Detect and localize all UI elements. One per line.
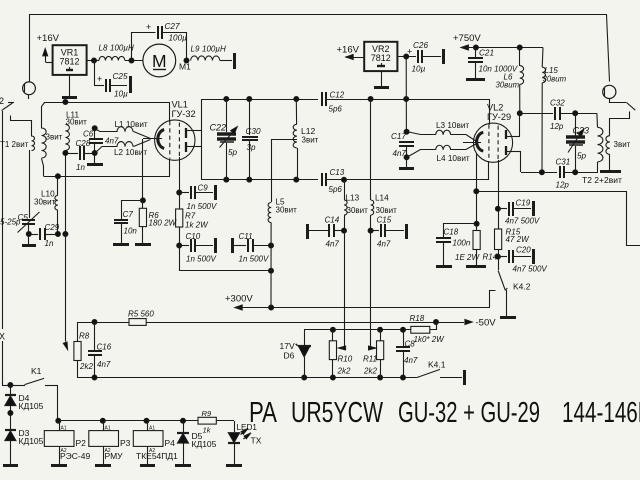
svg-text:12p: 12p (556, 181, 570, 190)
wire grid feed top y102 (44, 100, 170, 105)
svg-text:ТКЕ54ПД1: ТКЕ54ПД1 (136, 451, 178, 461)
svg-text:C9: C9 (198, 183, 209, 192)
svg-text:C21: C21 (479, 48, 494, 57)
svg-text:5-25p: 5-25p (0, 218, 21, 227)
svg-text:30вит: 30вит (376, 206, 398, 215)
svg-text:C29: C29 (45, 223, 60, 232)
svg-text:30вит: 30вит (347, 206, 369, 215)
svg-text:5p: 5p (228, 148, 238, 157)
svg-text:C27: C27 (165, 22, 180, 31)
svg-text:4n7: 4n7 (377, 240, 391, 249)
resistor R18 1k0 2W (410, 314, 446, 344)
svg-text:-50V: -50V (476, 318, 497, 329)
svg-text:КД105: КД105 (192, 439, 217, 449)
label +16V right (337, 45, 360, 56)
svg-text:12p: 12p (550, 122, 564, 131)
transformer T2 secondary 3vit (600, 112, 631, 172)
svg-text:1n 500V: 1n 500V (186, 255, 216, 264)
svg-text:R8: R8 (79, 332, 90, 341)
potentiometer R11 2k2 (363, 330, 384, 378)
svg-text:C28: C28 (76, 139, 91, 148)
inductor L6 30vit (496, 48, 524, 113)
inductor L1 10vit (95, 120, 151, 139)
svg-text:7812: 7812 (371, 53, 391, 63)
svg-text:L4 10вит: L4 10вит (437, 154, 470, 163)
svg-text:C17: C17 (391, 132, 406, 141)
svg-text:M: M (152, 51, 167, 71)
capacitor C26 10u (397, 41, 444, 74)
capacitor C28 1n (63, 139, 95, 172)
svg-text:+: + (146, 22, 151, 32)
svg-text:C25: C25 (113, 72, 128, 81)
arrow +16V up (43, 49, 53, 63)
wire cathode line to right edge (477, 192, 640, 246)
anode top rail to C32 (520, 113, 553, 115)
svg-text:100µ: 100µ (169, 34, 188, 43)
svg-text:ГУ-29: ГУ-29 (487, 112, 511, 122)
svg-text:+16V: +16V (337, 45, 360, 56)
capacitor C21 10n 1000V (466, 48, 518, 80)
transformer T1 winding 2vit (0, 116, 35, 219)
svg-text:T1 2вит: T1 2вит (0, 140, 29, 149)
svg-text:C14: C14 (325, 216, 340, 225)
svg-text:100n: 100n (453, 239, 471, 248)
svg-text:РМУ: РМУ (105, 451, 124, 461)
svg-text:C26: C26 (413, 41, 428, 50)
wire L11 node down to R8 wiper (63, 153, 67, 350)
coax connector output with switch (603, 85, 636, 110)
resistor R12 1E 2W (455, 221, 486, 266)
svg-text:4n7: 4n7 (404, 356, 418, 365)
capacitor C16 4n7 (88, 322, 112, 378)
svg-text:C18: C18 (444, 228, 459, 237)
switch K4.1 (417, 360, 465, 386)
resistor R7 1k 2W (176, 209, 210, 246)
capacitor C30 3p (242, 99, 261, 180)
svg-text:P2: P2 (76, 438, 87, 448)
diode D5 KD105 (175, 421, 217, 466)
node R7 bottom (177, 243, 182, 248)
switch K4.2 (490, 271, 531, 318)
inductor L12 3vit (293, 99, 318, 180)
svg-text:5p6: 5p6 (329, 105, 343, 114)
svg-text:30вит: 30вит (276, 206, 298, 215)
svg-text:C30: C30 (246, 127, 261, 136)
capacitor C11 1n 500V (233, 232, 272, 264)
capacitor C31 12p (556, 158, 599, 190)
svg-text:3вит: 3вит (302, 135, 319, 144)
wire VL2 cathode down (474, 154, 479, 224)
enclosure frame top (30, 15, 610, 82)
capacitor C7 10n (113, 201, 143, 245)
svg-text:C16: C16 (97, 343, 112, 352)
capacitor C6 4n7 (83, 126, 119, 156)
label +16V (37, 33, 60, 44)
svg-text:C7: C7 (123, 210, 134, 219)
coax connector Gn2 (RF input) (23, 82, 36, 99)
cathode stub VL2 (463, 142, 481, 144)
arrow +750V left (461, 45, 543, 50)
svg-text:P4: P4 (165, 438, 176, 448)
terminal after L9 (220, 53, 235, 69)
inductor L3 10vit (407, 121, 477, 142)
svg-text:L13: L13 (346, 194, 360, 203)
resistor R8 2k2 (74, 322, 94, 378)
transformer T2 primary 2+2vit (597, 113, 603, 172)
cathode stub VL1 (143, 138, 162, 140)
node R15 bottom (495, 250, 500, 270)
label T2 2+2vit (582, 175, 622, 185)
svg-text:1k 2W: 1k 2W (185, 221, 209, 230)
svg-text:K4.1: K4.1 (428, 360, 446, 370)
wire RX line left edge (2, 111, 4, 385)
svg-text:+: + (97, 74, 102, 84)
svg-text:2k2: 2k2 (363, 367, 377, 376)
bias rail y330 (304, 327, 411, 332)
variable capacitor C22 5p (210, 99, 238, 180)
capacitor C15 4n7 (368, 216, 406, 249)
capacitor C27 100u (132, 22, 188, 61)
svg-text:PA: PA (249, 397, 277, 429)
node VL2 anode top (506, 111, 522, 137)
capacitor C10 1n 500V (179, 232, 216, 264)
svg-text:2: 2 (0, 96, 4, 106)
inductor L9 100uH (191, 45, 226, 61)
svg-text:3вит: 3вит (46, 133, 63, 142)
svg-text:P3: P3 (120, 438, 131, 448)
svg-text:4n7: 4n7 (97, 360, 111, 369)
relay P2 RES-49 (44, 421, 90, 466)
variable capacitor C23 5p (566, 113, 589, 172)
capacitor C25 10u (94, 60, 131, 99)
resistor R15 47 2W (495, 228, 531, 250)
svg-text:1k: 1k (203, 426, 212, 435)
switch K1 (2, 366, 58, 388)
svg-text:КД105: КД105 (19, 401, 44, 411)
svg-text:3вит: 3вит (614, 140, 631, 149)
svg-text:A1: A1 (149, 425, 155, 431)
svg-text:4n7: 4n7 (326, 240, 340, 249)
svg-text:1n: 1n (45, 239, 54, 248)
label 2 (0, 96, 4, 106)
relay coil bus (56, 385, 198, 423)
svg-text:C23: C23 (573, 126, 590, 136)
diode D3 KD105 (3, 411, 44, 466)
svg-text:+750V: +750V (453, 33, 481, 44)
inductor L5 30vit (268, 198, 297, 308)
svg-text:C19: C19 (516, 199, 531, 208)
svg-text:30вит: 30вит (543, 75, 567, 84)
svg-text:4n7 500V: 4n7 500V (505, 217, 540, 226)
node VL2 anode bottom (506, 151, 557, 175)
svg-text:10µ: 10µ (412, 65, 426, 74)
svg-text:5p6: 5p6 (329, 185, 343, 194)
inductor L13 30vit (344, 180, 368, 231)
node VR2 out (404, 54, 409, 132)
zener diode D6 17V (280, 330, 312, 378)
inductor L14 30vit (371, 99, 398, 231)
svg-text:C32: C32 (550, 99, 565, 108)
svg-text:1E 2W: 1E 2W (455, 253, 480, 262)
svg-text:17V: 17V (280, 341, 295, 351)
svg-text:C13: C13 (330, 168, 345, 177)
resistor R5 560 (78, 310, 436, 326)
capacitor C12 5p6 (322, 91, 490, 114)
capacitor C13 5p6 (322, 168, 489, 194)
capacitor C9 1n 500V (179, 183, 217, 211)
svg-text:30вит: 30вит (496, 81, 520, 90)
arrow +16V left (346, 55, 364, 60)
svg-text:L14: L14 (375, 194, 389, 203)
anode bottom bus y179.6 (202, 177, 318, 182)
wire VL2 grid1 top (489, 100, 491, 125)
svg-text:L3 10вит: L3 10вит (436, 121, 469, 130)
capacitor C19 4n7 500V (498, 199, 540, 226)
svg-text:R10: R10 (338, 355, 353, 364)
svg-text:4n7 500V: 4n7 500V (513, 265, 548, 274)
svg-text:L9: L9 (191, 45, 200, 54)
inductor L11 30vit (65, 111, 87, 154)
label +750V (453, 33, 481, 44)
svg-text:R11: R11 (363, 355, 377, 364)
variable capacitor C5 5-25p (0, 212, 40, 234)
svg-text:30вит: 30вит (34, 198, 56, 207)
svg-text:C10: C10 (186, 232, 201, 241)
wire VL2 screen down (495, 160, 500, 229)
svg-text:C15: C15 (377, 216, 392, 225)
svg-text:3p: 3p (247, 143, 257, 152)
svg-text:100µH: 100µH (110, 44, 134, 53)
svg-text:100µH: 100µH (202, 45, 226, 54)
svg-text:X: X (0, 332, 5, 342)
ground C5 node (22, 232, 36, 246)
arrow -50V (434, 318, 497, 329)
svg-text:+16V: +16V (37, 33, 60, 44)
LED1 TX (226, 421, 262, 466)
svg-text:R14: R14 (483, 253, 498, 262)
svg-text:D6: D6 (284, 351, 295, 361)
svg-text:4n7: 4n7 (393, 149, 407, 158)
svg-text:180 2W: 180 2W (149, 219, 178, 228)
capacitor C32 12p (550, 99, 597, 132)
svg-text:1n 500V: 1n 500V (187, 202, 217, 211)
transformer T1 winding 3vit (42, 103, 63, 177)
svg-text:A1: A1 (61, 425, 67, 431)
ground VR1 (62, 75, 77, 98)
svg-text:C22: C22 (210, 123, 227, 133)
ground C6 node (87, 153, 103, 165)
wire L12 tap to +300V riser (271, 139, 297, 202)
wire VL1 screen down (177, 157, 182, 209)
wire L13 to R10 wiper (338, 231, 345, 351)
svg-text:GU-32 + GU-29: GU-32 + GU-29 (398, 397, 540, 429)
svg-text:КД105: КД105 (19, 436, 44, 446)
inductor L15 30vit (542, 48, 567, 173)
motor M1 (143, 44, 191, 77)
diode D4 KD105 (5, 385, 44, 413)
svg-text:T2 2+2вит: T2 2+2вит (582, 175, 622, 185)
svg-text:4n7: 4n7 (105, 137, 119, 146)
inductor L8 100uH (99, 44, 134, 61)
svg-text:C31: C31 (556, 158, 571, 167)
svg-text:1n 500V: 1n 500V (239, 255, 269, 264)
capacitor C18 100n (436, 224, 477, 267)
svg-text:UR5YCW: UR5YCW (291, 397, 383, 429)
resistor R6 180 2W (135, 200, 178, 245)
svg-text:L1 10вит: L1 10вит (115, 120, 148, 129)
svg-text:R9: R9 (202, 409, 212, 418)
wire VL2 grid1 bottom riser (488, 161, 490, 180)
capacitor C20 4n7 500V (498, 246, 547, 274)
wire L8 to M1 (125, 58, 143, 63)
wire VL1 grid1 top (169, 103, 171, 122)
grid bus y176 (44, 160, 170, 179)
svg-text:K4.2: K4.2 (513, 282, 531, 292)
label R14 (483, 253, 498, 262)
capacitor C17 4n7 (391, 129, 414, 168)
capacitor C14 4n7 (307, 216, 347, 249)
potentiometer R10 2k2 (329, 330, 352, 378)
regulator VR2 7812 (364, 42, 397, 71)
svg-text:ГУ-32: ГУ-32 (172, 109, 196, 119)
tube VL2 GU-29 (473, 103, 512, 163)
svg-text:РЭС-49: РЭС-49 (60, 451, 90, 461)
svg-text:A1: A1 (105, 425, 111, 431)
svg-text:C12: C12 (330, 91, 345, 100)
node C29 right (55, 232, 68, 237)
wire screen return loop (180, 243, 274, 273)
resistor R9 1k (198, 409, 234, 435)
svg-text:TX: TX (251, 436, 262, 446)
svg-text:5p: 5p (577, 152, 587, 161)
capacitor C29 1n (29, 223, 60, 248)
svg-text:K1: K1 (31, 366, 42, 376)
svg-text:7812: 7812 (59, 57, 79, 67)
svg-text:C6: C6 (83, 130, 94, 139)
label +300V (225, 294, 253, 305)
svg-text:10n: 10n (124, 227, 138, 236)
title PA UR5YCW GU-32 + GU-29 144-146MHz (249, 397, 640, 429)
svg-text:+300V: +300V (225, 294, 253, 305)
relay P4 TKE54PD1 (133, 421, 178, 466)
inductor L2 10vit (95, 140, 151, 158)
inductor L4 10vit (407, 144, 477, 164)
svg-text:C20: C20 (516, 246, 531, 255)
relay P3 RMU (89, 421, 131, 466)
svg-text:C11: C11 (239, 232, 253, 241)
svg-text:1k0* 2W: 1k0* 2W (414, 335, 446, 344)
bias bottom bus (78, 375, 417, 380)
svg-text:144-146МГц: 144-146МГц (562, 397, 640, 429)
label X (0, 332, 5, 342)
ground VR2 (374, 71, 389, 88)
svg-text:R18: R18 (410, 314, 425, 323)
svg-text:L8: L8 (99, 44, 108, 53)
wire L14 to R11 wiper (369, 231, 376, 351)
wire VL1 anodes to riser (187, 99, 202, 180)
svg-text:R5 560: R5 560 (128, 310, 154, 319)
wire VL1 cathode down (140, 139, 145, 203)
wire VR1 out (87, 58, 99, 63)
regulator VR1 7812 (53, 45, 87, 75)
anode top bus y99 (202, 97, 318, 102)
svg-text:47 2W: 47 2W (506, 235, 531, 244)
switch K2 input lever (2, 103, 15, 111)
svg-text:2k2: 2k2 (337, 367, 351, 376)
wire +300V rail (235, 305, 490, 310)
svg-text:10µ: 10µ (114, 90, 128, 99)
capacitor C8 4n7 (396, 330, 418, 378)
svg-text:1n: 1n (76, 163, 85, 172)
node M1 right (184, 58, 189, 63)
svg-text:R7: R7 (185, 212, 196, 221)
tube VL1 GU-32 (155, 100, 196, 161)
svg-text:2k2: 2k2 (79, 362, 93, 371)
inductor L10 30vit (34, 176, 58, 234)
